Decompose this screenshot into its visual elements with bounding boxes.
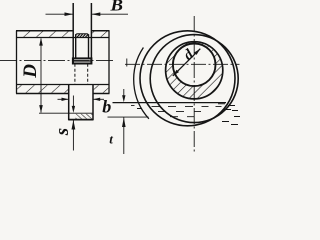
ring section bar mid line (73, 60, 91, 62)
dimension t lower stem (123, 117, 125, 154)
svg-text:t: t (109, 132, 113, 147)
bottom slot left wall (68, 85, 70, 121)
arrow d lower (173, 70, 179, 76)
arrow D down (39, 105, 43, 113)
svg-text:s: s (52, 128, 73, 136)
svg-text:d: d (181, 46, 197, 63)
dimension d line (173, 49, 201, 76)
ring bottom section hatch (76, 114, 93, 119)
arrow B right (92, 12, 101, 16)
oil dashes row2 (137, 109, 201, 112)
oil ring right side (88, 34, 90, 58)
housing bore arc (134, 48, 149, 119)
dimension D line (40, 39, 42, 113)
oil dashes row3 (170, 116, 194, 118)
housing top outer line right of slot (91, 30, 109, 32)
dimension b line right (93, 98, 104, 100)
dimension s upper stem (72, 96, 74, 108)
small cross tick on t extension (126, 59, 128, 67)
arrow t up (122, 117, 126, 127)
dimension t upper stem (123, 89, 125, 97)
top slot left wall with B extension (72, 3, 74, 64)
arrow d upper (194, 49, 200, 55)
dimension B line right (92, 13, 128, 15)
ring inner boundary circle (166, 42, 223, 99)
ring section bar (73, 58, 92, 63)
centerline left view (0, 60, 115, 62)
hatch top band left (17, 31, 72, 37)
vertical centerline right view (193, 16, 195, 152)
hatch bottom band left (17, 85, 68, 93)
dimension B line left (46, 13, 73, 15)
arrow s up (72, 120, 76, 130)
ring outline circle C2 (150, 35, 238, 123)
hidden ring side right (dashed) (87, 64, 89, 85)
dimension s lower stem (72, 120, 74, 151)
oil sump bottom line (108, 116, 149, 118)
svg-text:b: b (102, 96, 111, 116)
bore top line (16, 37, 110, 39)
horizontal centerline right view (125, 63, 240, 65)
svg-text:B: B (109, 0, 123, 15)
hidden ring side left (dashed) (74, 64, 76, 85)
housing top outer line left of slot (16, 30, 73, 32)
oil ring top hatch squiggle (77, 34, 88, 37)
housing bottom outer line right of slot (93, 93, 110, 95)
svg-text:D: D (20, 64, 41, 79)
bottom slot right wall (92, 85, 94, 121)
oil ring top (76, 34, 89, 36)
outer circle C1 (140, 31, 235, 126)
arrow B left (65, 12, 74, 16)
ring section crescent hatch (166, 42, 223, 99)
arrow D up (39, 38, 43, 46)
oil dashes right outside (218, 104, 240, 125)
oil level line (113, 102, 227, 104)
housing left edge (16, 31, 18, 94)
bottom slot bottom line (68, 119, 93, 121)
dimension b line left (58, 98, 69, 100)
keyway depth reference line (39, 112, 93, 114)
housing bottom outer line left of slot (16, 93, 69, 95)
arrow b left (62, 98, 69, 101)
shaft circle (173, 44, 216, 87)
housing right edge (108, 31, 110, 94)
hatch bottom band right (94, 85, 109, 93)
arrow s down (72, 106, 75, 113)
oil dashes row1 (131, 105, 222, 106)
top slot right wall with B extension (90, 3, 92, 64)
bore bottom line (16, 84, 110, 86)
arrow b right (93, 98, 100, 101)
oil ring left side (75, 34, 77, 58)
hatch top band right (92, 31, 108, 37)
arrow t down (122, 95, 125, 102)
right view (125, 16, 240, 152)
